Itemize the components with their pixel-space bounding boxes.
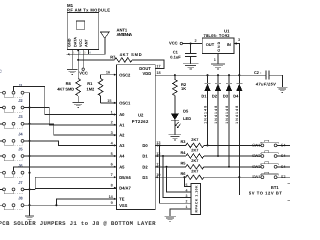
svg-text:C2 -: C2 - [254, 70, 262, 75]
junction row 1 to RPACK [162, 155, 164, 157]
wire M1 ANT pin to antenna [67, 38, 105, 55]
wire RPACK common to ground [170, 209, 191, 216]
diode D4 label [233, 94, 239, 99]
wire SW4 to battery [277, 176, 290, 178]
junction bus [28, 172, 30, 174]
svg-text:D4/A7: D4/A7 [119, 185, 131, 190]
svg-text:GND: GND [68, 38, 72, 47]
wire rail to R2 [174, 75, 176, 79]
RPACK pin numbers [185, 183, 187, 209]
svg-text:RPACK 1.10K: RPACK 1.10K [194, 185, 198, 213]
junction D3 row [228, 166, 230, 168]
wire data row 3 right [204, 176, 261, 178]
ground at C1 [183, 64, 199, 69]
junction C1 tap [190, 42, 192, 44]
svg-text:J5: J5 [18, 146, 23, 151]
junction D4 row [238, 176, 240, 178]
solder jumper J4 [0, 140, 24, 146]
resistor R5 [186, 165, 204, 169]
svg-text:A2: A2 [119, 133, 125, 138]
wire J4 to A3 [24, 141, 117, 146]
svg-text:TE: TE [119, 197, 125, 202]
svg-text:D3: D3 [142, 175, 148, 180]
wire data row 2 right [204, 166, 261, 168]
svg-text:17: 17 [156, 64, 160, 68]
svg-text:VDD: VDD [143, 71, 152, 76]
wire R8 to ground [77, 96, 79, 103]
node VCC near U1 [169, 41, 183, 46]
svg-text:2K7: 2K7 [191, 137, 198, 142]
module M1 pin name VCC [79, 39, 83, 47]
junction D1 row [206, 144, 208, 146]
IC U2 box [117, 65, 156, 210]
wire row 3 to RPACK [185, 177, 189, 186]
svg-text:1M2: 1M2 [87, 86, 96, 91]
svg-text:J2: J2 [18, 98, 23, 103]
wire row 2 to RPACK [167, 167, 189, 192]
IC U2 right pin numbers [156, 141, 160, 177]
svg-text:J3: J3 [18, 114, 23, 119]
jumper J4 label [18, 131, 23, 136]
junction R2 on rail [174, 74, 176, 76]
wire SW2 to battery [277, 155, 290, 157]
svg-text:D4: D4 [233, 94, 239, 99]
svg-text:D1: D1 [142, 154, 148, 159]
wire data row 2 left [155, 166, 186, 168]
resistor R1 [98, 75, 103, 103]
wire VCC to C1 [190, 44, 192, 54]
regulator U1 OUT label [206, 42, 215, 47]
label S3 row 3 [281, 174, 286, 179]
IC U2 name [132, 112, 149, 124]
diode D2 part number [214, 106, 218, 124]
jumper J2 label [18, 98, 23, 103]
svg-text:D2: D2 [142, 165, 148, 170]
svg-text:ANT: ANT [84, 39, 88, 47]
jumper J3 label [18, 114, 23, 119]
svg-text:1N4148: 1N4148 [235, 106, 239, 124]
wire J1 to A0 [14, 87, 117, 115]
svg-text:S4: S4 [281, 153, 287, 158]
svg-text:4K7 SMD: 4K7 SMD [57, 86, 74, 91]
svg-text:RF AM Tx MODULE: RF AM Tx MODULE [67, 8, 110, 13]
wire rail to D1 [207, 75, 209, 83]
wire DATA to R7 [78, 59, 114, 61]
label S4 row 2 [281, 164, 287, 169]
svg-text:PCB SOLDER JUMPERS J1 to J8 @: PCB SOLDER JUMPERS J1 to J8 @ BOTTOM LAY… [0, 220, 156, 227]
regulator U1 GND label [217, 41, 221, 51]
wire ground bus [24, 93, 30, 206]
wire data row 3 left [155, 176, 186, 178]
regulator U1 IN label [227, 42, 231, 47]
LED D5 labels [183, 109, 191, 121]
jumper J1 label [18, 83, 23, 88]
junction D2 row [217, 155, 219, 157]
switch SW1 [261, 140, 278, 147]
svg-text:SW2: SW2 [252, 153, 260, 158]
svg-text:SW1: SW1 [252, 142, 260, 147]
wire M1 GND pin down [71, 49, 73, 69]
pin number 18 [156, 71, 160, 75]
svg-text:SW4: SW4 [252, 174, 261, 179]
switch SW3 [261, 162, 278, 169]
svg-text:7: 7 [111, 173, 113, 177]
svg-text:PT2262: PT2262 [132, 119, 149, 124]
battery BT1 labels [249, 185, 282, 195]
capacitor C2 [266, 71, 269, 80]
resistor R7 labels [110, 52, 142, 60]
wire SW1 to battery [277, 144, 290, 146]
svg-text:1K: 1K [181, 86, 186, 91]
wire SW3 to battery [277, 166, 290, 168]
IC U2 left pin numbers [109, 110, 114, 205]
svg-text:J4: J4 [18, 131, 23, 136]
wire C2 to ground [269, 75, 282, 87]
label S4 row 0 [281, 142, 287, 147]
svg-text:5: 5 [111, 152, 113, 156]
svg-text:3: 3 [111, 131, 113, 135]
RPACK pin stubs [188, 186, 191, 208]
svg-text:D5: D5 [183, 109, 189, 114]
U2 input pin arrows right [155, 144, 158, 178]
svg-text:9: 9 [111, 201, 113, 205]
wire A7 branch [35, 187, 116, 189]
wire OSC1 pin 15 [101, 102, 117, 104]
svg-text:A1: A1 [119, 122, 125, 127]
resistor R8 labels [57, 81, 74, 91]
wire data row 1 left [155, 155, 186, 157]
junction D2 on rail [217, 74, 219, 76]
wire J3 to A2 [24, 124, 117, 135]
solder jumper J7 [0, 188, 24, 194]
svg-text:16: 16 [106, 71, 110, 75]
U2 input pin arrows left [114, 74, 117, 200]
svg-text:C: C [0, 69, 2, 74]
wire VDD rail [155, 74, 266, 76]
junction row 3 to RPACK [183, 176, 185, 178]
diode D1 [204, 83, 210, 91]
svg-text:OSC2: OSC2 [119, 72, 131, 77]
switch SW1 label [252, 142, 260, 147]
junction bus [28, 140, 30, 142]
pin number 15 [107, 99, 111, 103]
diode D2 [215, 83, 221, 91]
wire J6 to A5 [14, 167, 117, 172]
wire D3 to switch row [228, 91, 230, 167]
switch SW2 [261, 151, 278, 158]
ground at C2 [277, 87, 287, 92]
solder jumper J2 [0, 106, 24, 112]
ground at LED [169, 135, 182, 140]
wire rail to D3 [228, 75, 230, 83]
switch SW3 label [252, 164, 260, 169]
ground at RPACK [164, 216, 176, 221]
wire battery rail down [238, 177, 240, 195]
module M1 labels [67, 3, 110, 13]
wire M1 VCC pin down [82, 49, 84, 67]
svg-text:SW3: SW3 [252, 164, 260, 169]
resistor R1 labels [87, 81, 96, 91]
svg-text:6: 6 [111, 163, 113, 167]
wire VCC to U1 OUT [183, 43, 203, 45]
module M1 pin name GND [68, 38, 72, 47]
diode D1 label [201, 94, 207, 99]
jumper J7 label [18, 180, 23, 185]
svg-text:A3: A3 [119, 143, 125, 148]
svg-text:D1: D1 [201, 94, 207, 99]
regulator U1 labels [204, 28, 231, 38]
svg-text:A0: A0 [119, 112, 125, 117]
svg-text:VSS: VSS [119, 203, 127, 208]
pin number 1 [214, 58, 216, 62]
svg-text:2: 2 [111, 121, 113, 125]
svg-text:2K7: 2K7 [191, 169, 198, 174]
diode D4 part number [235, 106, 239, 124]
resistor R4 labels [181, 147, 199, 154]
wire M1 DATA pin down [77, 49, 79, 78]
svg-text:VCC: VCC [169, 41, 178, 46]
wire D2 to switch row [217, 91, 219, 156]
svg-text:DATA: DATA [74, 37, 78, 47]
junction bus [28, 204, 30, 206]
resistor R6 [186, 175, 204, 179]
svg-text:1N4148: 1N4148 [203, 106, 207, 124]
svg-text:8: 8 [111, 184, 113, 188]
svg-text:R3: R3 [181, 139, 187, 144]
junction row 2 to RPACK [165, 166, 167, 168]
module M1 pin name DATA [74, 37, 78, 47]
pin number 17 [156, 64, 160, 68]
junction D3 on rail [228, 74, 230, 76]
svg-text:R4: R4 [181, 150, 187, 155]
pin number 3 [238, 38, 240, 42]
svg-text:OSC1: OSC1 [119, 101, 131, 106]
switch SW4 [261, 172, 278, 179]
svg-text:OUT: OUT [206, 42, 215, 47]
svg-text:5V TO 12V BT: 5V TO 12V BT [249, 190, 282, 195]
wire rail to D4 [238, 75, 240, 83]
switch SW2 label [252, 153, 260, 158]
wire data row 1 right [204, 155, 261, 157]
resistor R4 [186, 154, 204, 158]
resistor R3 [186, 143, 204, 147]
svg-text:D5/A6: D5/A6 [119, 175, 131, 180]
svg-text:18: 18 [156, 71, 160, 75]
svg-text:J1: J1 [18, 83, 23, 88]
module M1 inner square [76, 21, 85, 29]
module M1 box [67, 12, 99, 49]
module M1 pin name ANT [84, 39, 88, 47]
IC U2 DOUT VDD labels [139, 66, 151, 76]
junction U1 pin3 [235, 42, 237, 44]
svg-text:J7: J7 [18, 180, 23, 185]
junction bus [28, 188, 30, 190]
wire C1 to ground [190, 56, 192, 63]
diode D3 part number [225, 106, 229, 124]
junction DATA-R7 [77, 49, 79, 61]
wire D4 to switch row [238, 91, 240, 177]
ground at R8 [72, 102, 84, 107]
svg-text:VCC: VCC [79, 71, 88, 76]
svg-text:2K7: 2K7 [191, 158, 198, 163]
antenna ANT1 labels [117, 28, 133, 37]
svg-text:2K7: 2K7 [191, 147, 198, 152]
svg-text:S3: S3 [281, 174, 286, 179]
diode D3 [226, 83, 232, 91]
switch SW4 label [252, 174, 261, 179]
solder jumper J8 [0, 204, 24, 210]
svg-text:LED: LED [183, 116, 191, 121]
pin number 16 [106, 71, 110, 75]
svg-text:2: 2 [195, 39, 197, 43]
svg-text:A4: A4 [119, 154, 125, 159]
svg-text:D3: D3 [223, 94, 229, 99]
junction row 0 to RPACK [158, 144, 160, 146]
solder jumper J1 [0, 91, 24, 97]
svg-text:R5: R5 [181, 161, 187, 166]
svg-text:R7: R7 [110, 55, 116, 60]
svg-text:1N4148: 1N4148 [225, 106, 229, 124]
ground at U1 [211, 64, 225, 69]
capacitor C1 labels [170, 50, 181, 60]
junction bus [28, 106, 30, 108]
svg-text:0.1uF: 0.1uF [170, 55, 181, 60]
jumper J6 label [18, 163, 23, 168]
diode D1 part number [203, 106, 207, 124]
resistor R2 [173, 80, 178, 96]
svg-text:1: 1 [214, 58, 216, 62]
junction bus [28, 155, 30, 157]
battery terminal stubs [287, 184, 290, 201]
svg-text:4K7 SMD: 4K7 SMD [120, 52, 142, 57]
note PCB solder jumpers [0, 220, 156, 227]
pin number 2 [195, 39, 197, 43]
LED D5 arrows [175, 122, 181, 128]
svg-text:GND: GND [217, 41, 221, 51]
svg-text:J8: J8 [18, 196, 23, 201]
ground at bus [25, 205, 34, 221]
resistor pack RPACK box [191, 184, 201, 215]
wire row 0 to RPACK [160, 145, 189, 203]
IC U2 right data pin names [142, 143, 148, 180]
resistor R7 [115, 58, 133, 62]
capacitor C2 value [255, 81, 276, 86]
wire LED to ground [174, 120, 176, 135]
svg-text:1N4148: 1N4148 [214, 106, 218, 124]
svg-text:A5: A5 [119, 164, 125, 169]
resistor R5 labels [181, 158, 199, 165]
module M1 pin numbers [73, 52, 91, 55]
LED D5 [171, 114, 179, 121]
regulator U1 box [202, 38, 234, 53]
svg-text:ANTENNA: ANTENNA [117, 32, 133, 37]
resistor R8 [76, 79, 81, 96]
junction D1 on rail [206, 74, 208, 76]
junction TE tap [55, 204, 57, 206]
wire OSC2 pin 16 [101, 74, 117, 76]
jumper J8 label [18, 196, 23, 201]
IC U2 left pin names [119, 72, 131, 208]
ground at M1 GND [67, 69, 78, 74]
svg-text:47uF/25V: 47uF/25V [255, 81, 276, 86]
wire J5 to A4 [24, 155, 117, 157]
svg-text:BT1: BT1 [271, 185, 279, 190]
svg-text:R6: R6 [181, 171, 187, 176]
svg-text:U2: U2 [138, 112, 144, 117]
wire J8 to VSS [24, 204, 117, 206]
svg-text:15: 15 [107, 99, 111, 103]
diode D3 label [223, 94, 229, 99]
wire TE [56, 199, 116, 205]
svg-text:3: 3 [238, 38, 240, 42]
wire rail to D2 [217, 75, 219, 83]
wire data row 0 right [204, 144, 261, 146]
wire D1 to switch row [207, 91, 209, 145]
solder jumper J5 [0, 155, 24, 161]
svg-text:D0: D0 [142, 143, 148, 148]
resistor R6 labels [181, 169, 199, 176]
svg-text:78L05- TO92: 78L05- TO92 [204, 33, 231, 38]
svg-text:D2: D2 [212, 94, 218, 99]
wire J2 to A1 [24, 108, 117, 125]
antenna ANT1 [100, 32, 109, 38]
svg-text:VCC: VCC [79, 39, 83, 47]
junction D4-IN on rail [238, 74, 240, 76]
wire U1 IN pin 3 [234, 44, 239, 76]
wire U1 GND pin 1 [217, 53, 219, 64]
wire J7 to A6 [35, 177, 116, 189]
resistor pack RPACK label [194, 185, 198, 213]
wire row 1 to RPACK [163, 156, 188, 198]
wire R2 to LED [174, 96, 176, 114]
label S4 row 1 [281, 153, 287, 158]
node VCC at M1 [79, 68, 88, 76]
resistor R2 labels [181, 82, 187, 91]
wire R7 to DOUT pin 17 [132, 60, 164, 69]
resistor R3 labels [181, 137, 199, 144]
cut label at left edge [0, 69, 2, 74]
solder jumper J3 [0, 122, 24, 128]
jumper J5 label [18, 146, 23, 151]
wire data row 0 left [155, 144, 186, 146]
solder jumper J6 [0, 171, 24, 177]
capacitor C2 label [254, 70, 262, 75]
svg-text:IN: IN [227, 42, 231, 47]
wire J7 row [24, 188, 35, 190]
svg-text:1: 1 [111, 110, 113, 114]
svg-text:J6: J6 [18, 163, 23, 168]
capacitor C1 [185, 54, 196, 57]
svg-text:S4: S4 [281, 164, 287, 169]
svg-text:S4: S4 [281, 142, 287, 147]
diode D4 [236, 83, 242, 91]
diode D2 label [212, 94, 218, 99]
junction bus [28, 123, 30, 125]
